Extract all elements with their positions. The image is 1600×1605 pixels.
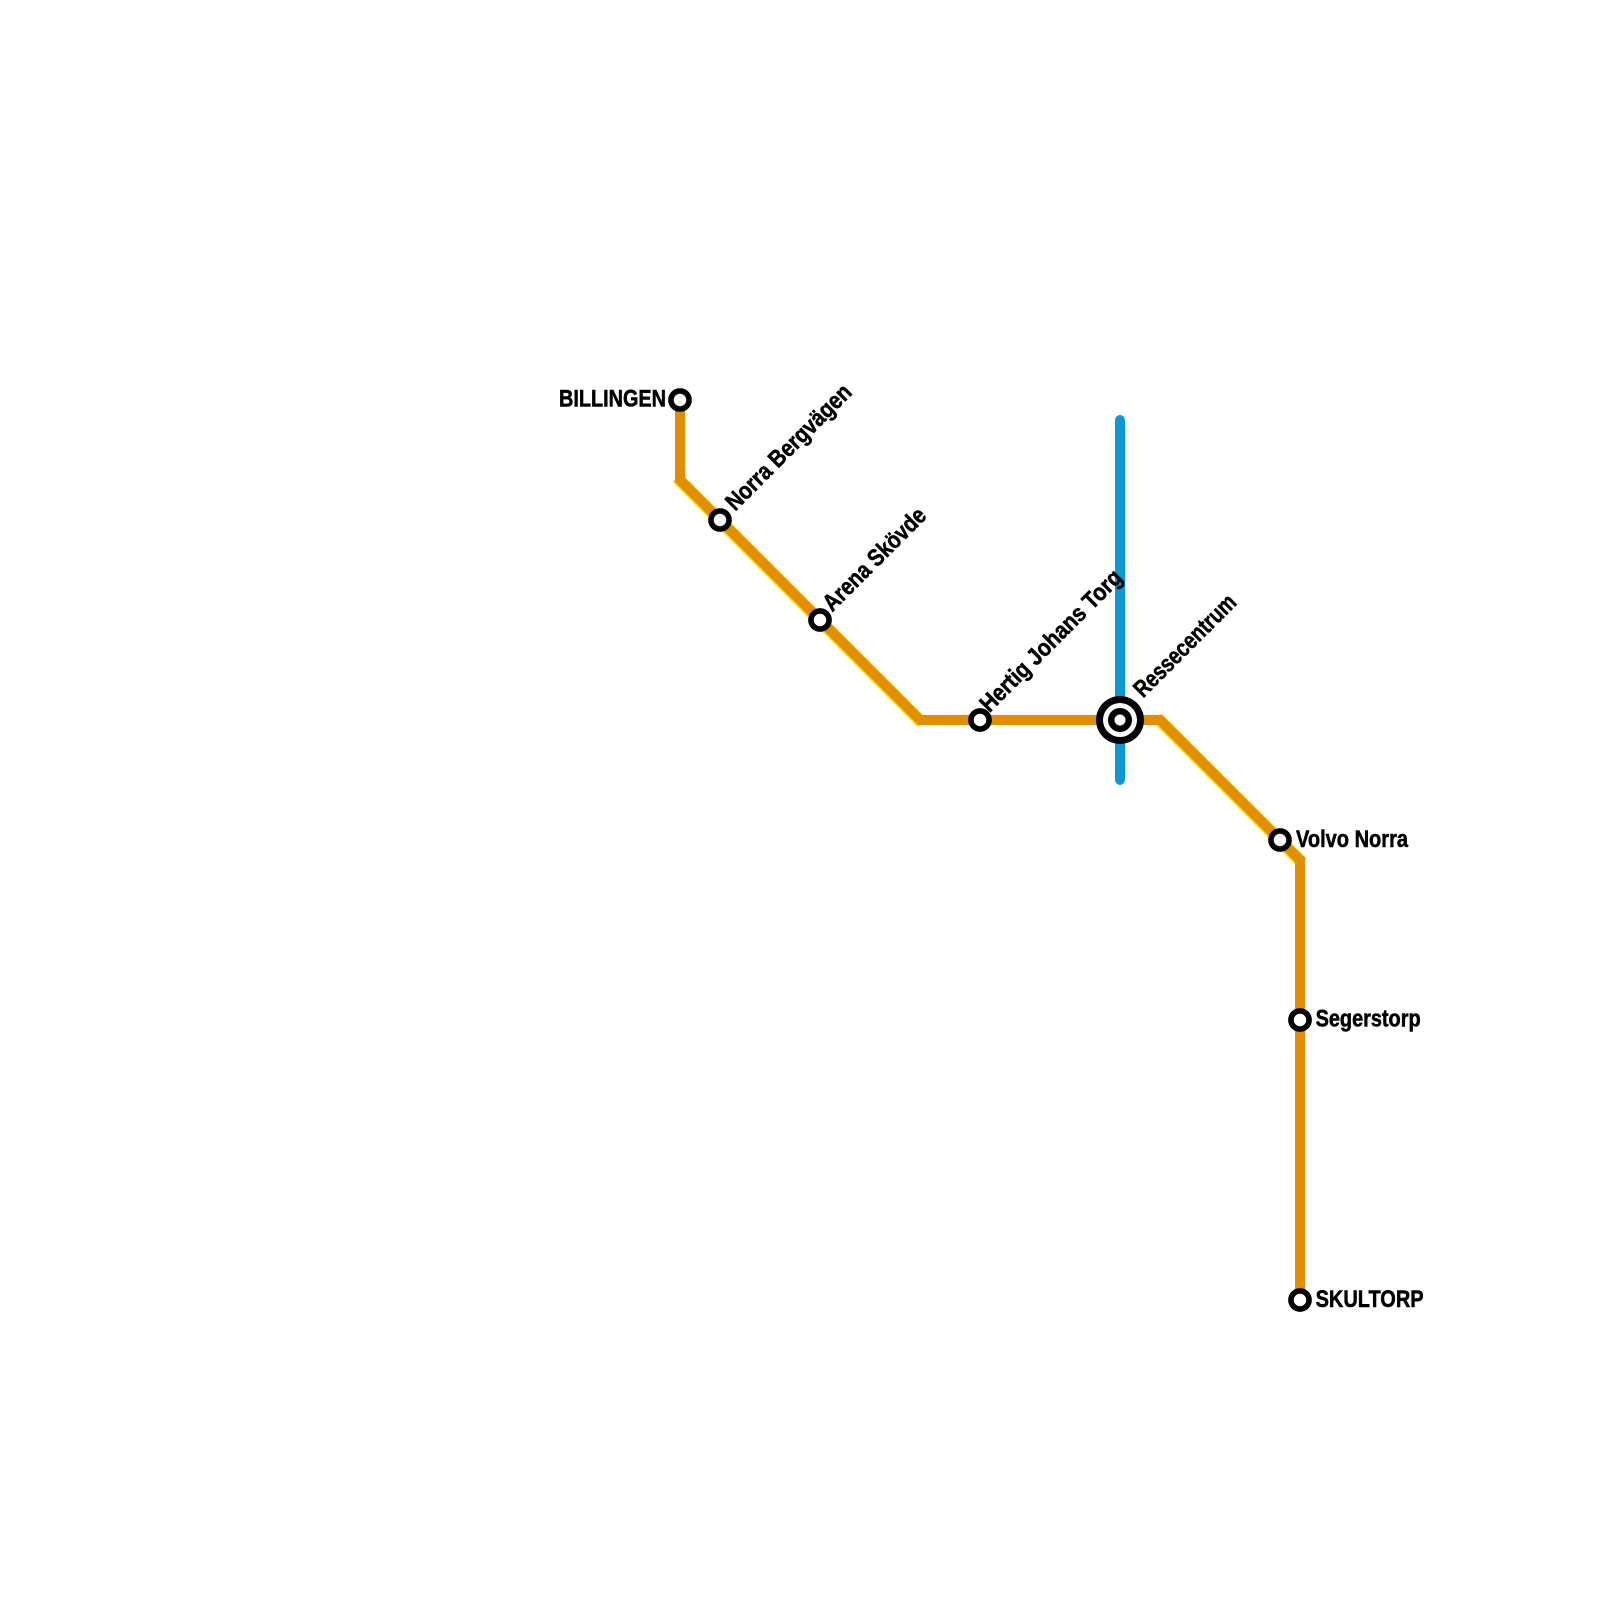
svg-text:Volvo Norra: Volvo Norra (1296, 826, 1409, 853)
interchange station Ressecentrum (bullseye) (1096, 696, 1144, 744)
orange line (main route) (680, 400, 1300, 1300)
yellow fringe under diagonal segment Ressecentrum-Volvo (1160, 720, 1300, 860)
station Norra Bergvägen (711, 511, 729, 529)
svg-text:BILLINGEN: BILLINGEN (559, 385, 666, 412)
station SKULTORP (1291, 1291, 1309, 1309)
svg-text:Segerstorp: Segerstorp (1316, 1006, 1421, 1033)
svg-text:SKULTORP: SKULTORP (1316, 1286, 1424, 1313)
station BILLINGEN (671, 391, 689, 409)
station Volvo Norra (1271, 831, 1289, 849)
blue line (crossing route) (1115, 420, 1125, 780)
station Hertig Johans Torg (971, 711, 989, 729)
station Arena Skövde (811, 611, 829, 629)
yellow fringe under diagonal segment Billingen-corner (680, 480, 920, 720)
station Segerstorp (1291, 1011, 1309, 1029)
